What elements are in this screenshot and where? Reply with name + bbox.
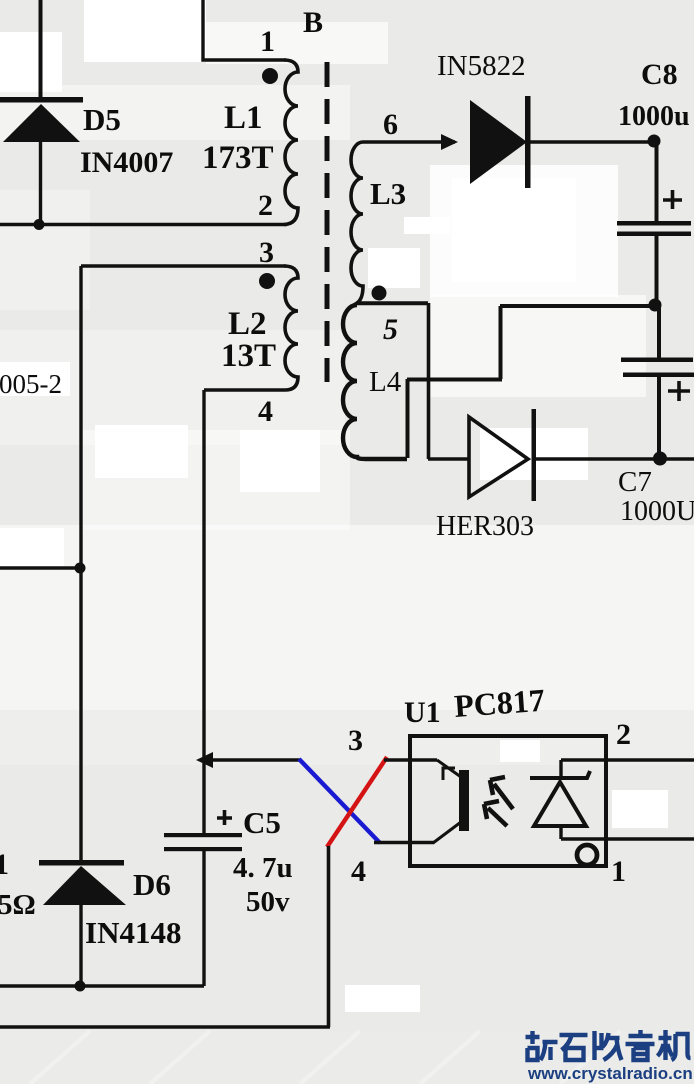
wire: top feed to L1 pin 1 [203,0,286,60]
LED of U1 body [534,782,586,826]
svg-text:IN5822: IN5822 [437,50,526,82]
inductor L1 primary winding [284,60,298,225]
svg-text:HER303: HER303 [436,511,534,542]
svg-text:L2: L2 [228,306,267,342]
svg-text:IN4148: IN4148 [85,915,181,950]
diode D5 (IN4007) body [3,104,80,142]
wire: L3 bottom to pin5 node [357,302,428,306]
wire: C5 negative lead [202,851,205,986]
svg-text:L4: L4 [369,366,402,398]
phototransistor of U1 [433,760,461,843]
wire: rail to crossover [204,758,300,761]
wire: D6 anode to bottom node [79,904,82,987]
svg-text:2: 2 [258,189,273,222]
capacitor C8 top lead [655,141,659,223]
wire: L2 pin 3 lead [81,264,286,267]
svg-text:6: 6 [383,108,398,141]
wire: stub to left edge [0,566,81,569]
wire: IN5822 cathode to C8 node [530,140,656,143]
svg-text:D5: D5 [83,102,121,137]
wire: U1 pin 1 output [561,837,694,840]
wire: step riser left from L4 bottom [406,379,410,458]
wire: bottom return rail [0,1025,330,1029]
svg-text:B: B [303,6,323,39]
capacitor C7 top lead [657,306,661,360]
svg-text:4: 4 [258,395,273,428]
diode D6 (IN4148) body [43,866,126,905]
svg-text:1: 1 [611,855,626,888]
svg-text:C5: C5 [243,805,281,840]
diode IN5822 cathode bar [525,96,531,188]
svg-text:4: 4 [351,855,366,888]
wire: D5 anode down to node [39,141,42,225]
diode D5 (IN4007) cathode bar [0,97,83,103]
inductor L3 winding with pin6 lead [351,142,455,303]
wire: step riser right [499,306,503,379]
transformer core [325,62,330,382]
svg-text:5: 5 [383,313,398,346]
plus sign of C5 [217,810,232,825]
wire: step horizontal [407,378,502,382]
inductor L2 winding [204,266,298,390]
svg-text:IN4007: IN4007 [80,146,173,179]
phase dot of L2 [259,273,275,289]
svg-text:50v: 50v [246,886,290,918]
svg-text:1: 1 [0,848,9,881]
svg-text:L1: L1 [224,100,263,136]
svg-text:L3: L3 [370,176,406,211]
diode HER303 cathode bar [532,409,537,501]
diode IN5822 body [470,100,527,184]
wire: node to L1 pin 2 [0,223,287,226]
optocoupler U1 PC817 body [410,736,606,866]
diode D6 (IN4148) cathode bar [39,860,124,866]
junction: left rail to edge stub [75,563,86,574]
svg-text:173T: 173T [202,140,274,176]
wire: U1 pin 2 output [561,758,694,761]
watermark logo 矿石收音机 [526,1030,691,1060]
arrow on feedback rail [196,752,213,768]
capacitor C7 bottom lead [657,377,661,458]
light arrow lower [484,801,507,826]
svg-text:1: 1 [260,25,275,58]
wire: bottom node to C5 negative [0,984,204,987]
capacitor C7 plates [621,358,693,363]
svg-text:2: 2 [616,718,631,751]
LED connecting stubs [559,760,562,839]
svg-text:PC817: PC817 [453,682,546,724]
svg-text:1000u: 1000u [618,101,690,132]
crossover wire blue [299,759,380,843]
crossover wire red [327,757,387,847]
LED of U1 cathode bar [530,771,590,778]
wire: left rail vertical [79,266,82,861]
plus sign of C7 [668,381,690,401]
svg-text:3: 3 [348,724,363,757]
svg-text:3: 3 [259,236,274,269]
watermark strip [0,1031,694,1084]
capacitor C5 plates [164,833,242,837]
svg-text:005-2: 005-2 [0,369,62,399]
wire: crossover down leg [327,846,331,1027]
svg-text:U1: U1 [404,696,441,729]
terminal circle at U1 pin 1 [577,845,597,865]
wire: mid rail from step to C8 negative [500,304,656,308]
svg-text:www.crystalradio.cn: www.crystalradio.cn [527,1064,693,1083]
svg-text:4. 7u: 4. 7u [233,852,293,884]
svg-text:C8: C8 [641,58,678,91]
plus sign of C8 [663,190,682,209]
svg-text:C7: C7 [618,466,652,498]
wire: HER303 anode lead [428,457,469,461]
junction: C8 negative / mid rail [649,299,662,312]
svg-text:5Ω: 5Ω [0,889,36,921]
diode HER303 body [469,417,528,497]
svg-text:13T: 13T [221,338,276,374]
wire: L2 pin4 rail down to C5 positive [202,390,205,836]
inductor L4 winding [343,305,407,459]
svg-text:D6: D6 [133,867,171,902]
capacitor C8 plates [617,221,691,226]
light arrow upper [490,777,513,809]
phase dot of L3 [372,286,387,301]
junction: output node at C7 [653,452,667,466]
current arrow on pin6 wire [441,134,458,150]
phase dot of L1 [262,68,278,84]
wire: crossover to U1 pin 3 [384,758,437,761]
junction: D6 / C5 negative node [75,981,86,992]
wire: HER303 cathode to output rail [534,457,694,461]
wire: crossover to U1 pin 4 [374,841,434,844]
junction: D5 anode / L1 pin2 node [34,219,45,230]
wire: input rail into D5 cathode [39,0,43,98]
svg-text:1000UF: 1000UF [620,496,694,527]
capacitor C8 bottom lead [655,236,659,306]
wire: pin5 node down leg [427,303,431,459]
junction: +12V node at C8 [648,135,661,148]
